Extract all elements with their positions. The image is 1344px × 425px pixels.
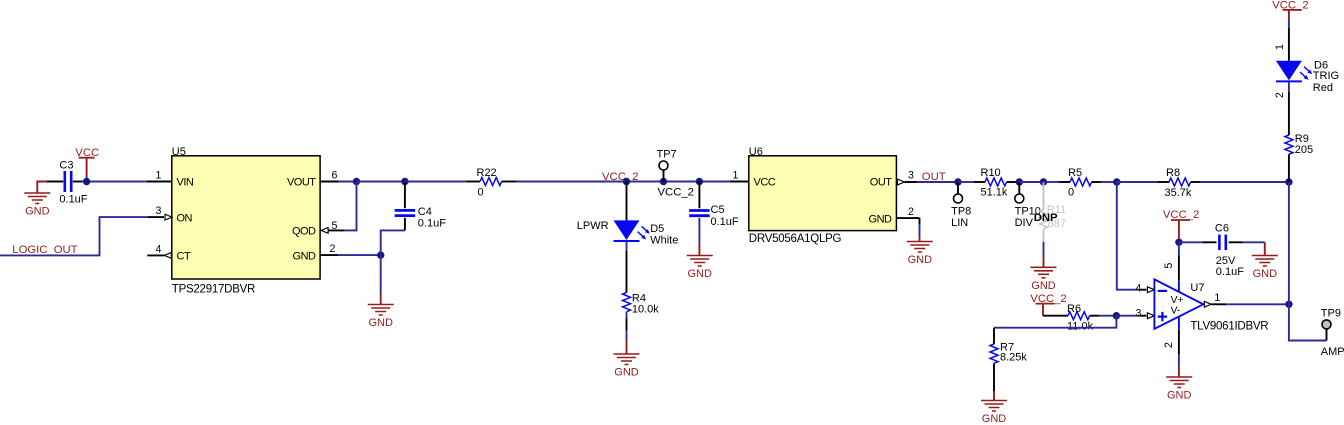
svg-text:QOD: QOD [292,226,316,238]
svg-text:R4: R4 [632,292,646,304]
svg-text:TP7: TP7 [657,149,677,161]
svg-text:C4: C4 [418,206,432,218]
ground [907,237,933,266]
wire [405,181,466,183]
node R11 junction [1040,178,1047,185]
pin 3 IN+ [1135,307,1154,319]
svg-text:GND: GND [25,206,50,218]
svg-text:0.1uF: 0.1uF [59,194,87,206]
svg-text:GND: GND [869,214,893,226]
node R9 junction [1285,178,1292,185]
svg-text:DNP: DNP [1034,212,1058,224]
resistor R6 [1043,303,1099,332]
svg-text:10.0k: 10.0k [632,304,659,316]
ground [687,244,713,280]
svg-text:TLV9061IDBVR: TLV9061IDBVR [1190,320,1268,332]
svg-text:R5: R5 [1068,167,1082,179]
wire [698,218,700,244]
svg-text:1: 1 [732,170,738,182]
wire [1016,181,1019,183]
svg-text:VOUT: VOUT [287,176,316,188]
svg-text:Red: Red [1313,82,1333,94]
svg-text:GND: GND [1167,390,1192,402]
svg-text:GND: GND [368,317,393,329]
wire [918,181,958,183]
wire [380,255,382,293]
node TP10 junction [1016,178,1023,185]
svg-text:LIN: LIN [951,217,968,229]
svg-text:1: 1 [1274,44,1286,50]
svg-text:TPS22917DBVR: TPS22917DBVR [172,284,255,296]
capacitor C6 [1215,223,1244,278]
wire [626,182,628,221]
ground [614,354,640,379]
pin 4 CT [147,243,171,258]
svg-text:U6: U6 [749,146,763,158]
LED D5 [577,220,679,247]
svg-text:0.1uF: 0.1uF [418,218,446,230]
power VCC_2 (U7) [1163,209,1199,242]
wire [47,181,63,183]
svg-text:6: 6 [331,170,337,182]
svg-text:3: 3 [908,170,914,182]
svg-text:GND: GND [293,251,317,263]
node C4 junction [401,178,408,185]
resistor R7 [990,328,1027,391]
wire [73,181,147,183]
svg-text:VCC_2: VCC_2 [602,171,638,183]
svg-text:DIV: DIV [1015,217,1034,229]
pin 5 QOD [321,220,345,233]
wire [1288,154,1290,182]
ground [1166,366,1192,402]
svg-text:3: 3 [1135,307,1141,319]
svg-text:VCC_2: VCC_2 [658,187,694,199]
wire [339,181,357,183]
power VCC_2 (D6) [1272,0,1308,28]
svg-text:C5: C5 [711,204,725,216]
pin 2 V- [1163,316,1179,366]
IC U6 DRV5056A1QLPG [749,146,897,245]
node VOUT junction [353,178,360,185]
pin 2 GND [320,243,338,255]
svg-text:4: 4 [156,243,162,255]
svg-text:TP9: TP9 [1321,308,1341,320]
ground [1252,242,1278,280]
wire [1289,304,1327,340]
resistor R8 [1117,167,1200,199]
svg-text:5: 5 [1163,263,1175,269]
svg-text:VIN: VIN [177,176,194,188]
wire [404,182,406,209]
capacitor C5 [689,204,739,228]
svg-text:VCC: VCC [754,176,776,188]
svg-text:V-: V- [1171,306,1181,317]
svg-text:CT: CT [177,251,191,263]
svg-text:3: 3 [156,205,162,217]
svg-text:1: 1 [1214,292,1220,304]
wire [1200,181,1289,183]
IC U5 TPS22917DBVR [172,146,320,295]
pin 6 VOUT [320,170,338,182]
wire [1288,28,1290,61]
svg-text:GND: GND [1031,280,1056,292]
svg-text:GND: GND [982,413,1007,425]
svg-text:5: 5 [332,220,338,232]
pin 2 (D6) [1274,92,1286,98]
pin 3 ON [148,205,172,220]
wire [1288,82,1290,135]
test point TP9 [1321,308,1344,359]
capacitor C3 [59,159,87,205]
svg-text:R10: R10 [981,167,1001,179]
svg-text:2: 2 [1274,92,1286,98]
test point TP8 [951,182,971,229]
svg-text:1: 1 [156,170,162,182]
wire [919,218,921,237]
svg-text:51.1k: 51.1k [981,187,1008,199]
svg-text:4: 4 [1135,283,1141,295]
resistor R22 [466,167,517,198]
svg-text:ON: ON [177,212,193,224]
node TP7 junction [660,178,667,185]
node IN+ junction [1113,312,1120,319]
svg-text:GND: GND [1253,268,1278,280]
power VCC_2 (divider) [1030,293,1066,316]
wire [626,242,628,293]
test point TP7 [657,149,677,182]
node C4-GND junction [377,251,384,258]
svg-text:VCC_2: VCC_2 [1163,209,1199,221]
wire [1116,315,1140,317]
svg-text:White: White [650,235,678,247]
pin 4 IN- [1135,283,1154,295]
svg-text:GND: GND [614,367,639,379]
label DNP [1034,212,1058,224]
pin 1 OUT [1204,292,1226,307]
wire [1099,315,1116,317]
wire [1117,182,1140,290]
ground [981,391,1007,425]
svg-text:U7: U7 [1190,282,1204,294]
svg-text:AMP: AMP [1321,346,1344,358]
op-amp U7 TLV9061IDBVR [1154,279,1268,332]
svg-text:U5: U5 [172,146,186,158]
svg-text:8.25k: 8.25k [1000,352,1027,364]
wire [404,218,406,231]
wire [1288,182,1290,304]
svg-text:R8: R8 [1166,167,1180,179]
wire [147,170,172,182]
node output junction [1285,301,1292,308]
wire [1043,242,1045,256]
svg-text:11.0k: 11.0k [1067,320,1094,332]
svg-text:0.1uF: 0.1uF [1216,266,1244,278]
svg-text:R22: R22 [477,167,497,179]
wire [626,312,628,354]
power VCC [75,147,99,181]
node D5 junction [623,178,630,185]
pin 3 OUT [898,170,918,185]
svg-text:D5: D5 [650,223,664,235]
svg-text:GND: GND [687,268,712,280]
wire [1101,181,1117,183]
capacitor C4 [395,206,447,230]
node VIN junction [83,178,90,185]
pin 1 (D6) [1274,44,1286,50]
svg-text:C6: C6 [1215,223,1229,235]
node C5 junction [696,178,703,185]
svg-text:0: 0 [477,186,483,198]
svg-text:0: 0 [1068,187,1074,199]
pin 1 VCC [730,170,749,182]
net OUT [922,171,946,183]
node V+ junction [1175,239,1182,246]
ground [368,293,394,329]
svg-text:2: 2 [908,206,914,218]
wire [0,217,148,255]
svg-text:LPWR: LPWR [577,220,609,232]
svg-text:205: 205 [1295,144,1313,156]
svg-text:35.7k: 35.7k [1165,187,1192,199]
resistor R10 [958,167,1016,199]
net VCC_2 (TP7) [658,187,694,199]
wire [338,254,381,256]
svg-text:R6: R6 [1067,303,1081,315]
ground [1031,256,1057,292]
resistor R5 [1044,167,1102,199]
svg-text:TRIG: TRIG [1313,70,1339,82]
pin 5 V+ [1163,242,1179,292]
svg-text:C3: C3 [59,159,73,171]
wire [1019,181,1043,183]
svg-text:OUT: OUT [870,176,893,188]
ground [24,182,50,218]
LED D6 [1276,60,1339,94]
wire [1229,241,1265,243]
svg-text:LOGIC_OUT: LOGIC_OUT [12,244,77,256]
wire [357,181,405,183]
wire [517,181,731,183]
wire [1226,303,1289,305]
svg-text:TP8: TP8 [951,206,971,218]
resistor R11 (DNP) [1040,182,1067,242]
pin 2 GND [896,206,919,218]
node IN- junction [1113,178,1120,185]
wire [698,182,700,209]
svg-text:GND: GND [908,254,933,266]
net LOGIC_OUT [12,244,77,256]
svg-text:V+: V+ [1171,295,1184,306]
svg-text:2: 2 [1163,342,1175,348]
wire [994,316,1116,328]
test point TP10 [1015,182,1041,229]
svg-text:DRV5056A1QLPG: DRV5056A1QLPG [749,233,842,245]
svg-text:0.1uF: 0.1uF [711,216,739,228]
svg-text:2: 2 [330,243,336,255]
net VCC_2 [602,171,638,183]
node TP8 junction [954,178,961,185]
wire [345,182,357,231]
wire [381,230,405,255]
resistor R9 [1285,133,1313,156]
resistor R4 [623,292,660,315]
wire [1179,241,1217,243]
